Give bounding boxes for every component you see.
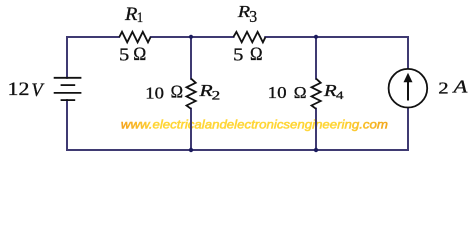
- svg-text:10: 10: [268, 83, 287, 102]
- svg-text:Ω: Ω: [171, 82, 183, 101]
- svg-text:12: 12: [8, 79, 30, 99]
- svg-text:Ω: Ω: [133, 43, 146, 64]
- svg-text:R: R: [323, 82, 337, 101]
- svg-text:A: A: [451, 78, 468, 97]
- svg-text:1: 1: [137, 10, 143, 26]
- svg-text:2: 2: [438, 79, 448, 98]
- svg-text:2: 2: [212, 89, 221, 102]
- svg-text:3: 3: [249, 6, 257, 26]
- svg-text:5: 5: [119, 46, 129, 65]
- svg-text:R: R: [124, 5, 138, 25]
- svg-text:Ω: Ω: [294, 83, 307, 102]
- svg-text:5: 5: [233, 46, 243, 65]
- svg-text:R: R: [198, 81, 212, 100]
- svg-text:4: 4: [336, 88, 344, 101]
- svg-text:Ω: Ω: [250, 43, 263, 64]
- svg-text:10: 10: [145, 83, 164, 102]
- svg-text:www.electricalandelectronicsen: www.electricalandelectronicsengineering.…: [121, 118, 388, 132]
